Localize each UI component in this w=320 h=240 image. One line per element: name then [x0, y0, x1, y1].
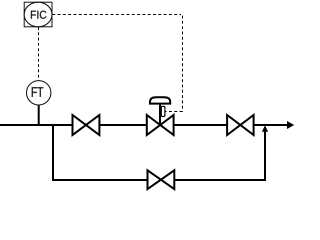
- wire signal to actuator (dashed): [165, 111, 182, 113]
- control valve actuator dome: [150, 97, 170, 103]
- instrument FT circle: [27, 81, 51, 105]
- valve V1 (gate valve): [73, 115, 100, 135]
- wire bypass return arrow (up): [262, 125, 268, 132]
- instrument FT label: [32, 87, 43, 97]
- wire signal FIC to valve horizontal (dashed): [52, 14, 181, 16]
- wire signal vertical drop (dashed): [182, 16, 184, 112]
- valve bypass valve: [148, 170, 175, 189]
- control valve positioner tag: [161, 106, 165, 116]
- wire bypass line (down, across, up): [53, 125, 265, 180]
- control valve stem: [159, 104, 161, 125]
- wire outlet arrow: [287, 121, 294, 129]
- wire signal FIC to FT (dashed): [38, 27, 40, 81]
- control valve CV body: [147, 115, 174, 135]
- wire main process line: [0, 124, 288, 126]
- instrument FIC square: [24, 2, 52, 27]
- instrument FIC label: [31, 11, 47, 19]
- wire FT process connection: [38, 105, 40, 126]
- valve V3 (gate valve): [227, 115, 254, 135]
- instrument FIC circle: [24, 2, 52, 27]
